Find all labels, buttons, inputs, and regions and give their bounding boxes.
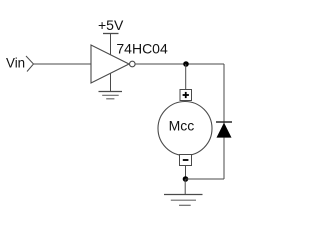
wire junction to ground symbol xyxy=(184,179,186,195)
wire right branch vertical (diode branch) xyxy=(223,64,225,179)
ground (motor) xyxy=(164,195,203,206)
wire Vin to inverter input xyxy=(34,63,92,65)
wire right branch bottom to ground junction xyxy=(186,178,225,180)
op-amp U1 inverter 74HC04 xyxy=(91,45,135,83)
motor terminal - xyxy=(180,155,192,166)
svg-text:+5V: +5V xyxy=(98,17,124,33)
motor terminal + xyxy=(180,90,192,101)
diode D1 (flyback) xyxy=(216,122,232,138)
wire inverter to ground xyxy=(110,74,112,92)
svg-text:Vin: Vin xyxy=(6,56,25,71)
svg-text:74HC04: 74HC04 xyxy=(116,41,168,57)
wire junction to motor + terminal xyxy=(185,64,187,90)
svg-text:Mcc: Mcc xyxy=(169,118,195,134)
motor Mcc xyxy=(158,102,212,156)
wire junction to right branch corner xyxy=(186,63,224,65)
ground (inverter) xyxy=(99,92,123,99)
wire +5V to inverter xyxy=(110,34,112,56)
junction (ground node) xyxy=(183,176,189,182)
+5V power symbol xyxy=(103,33,119,35)
wire motor - terminal to ground junction xyxy=(185,166,187,180)
junction (inverter output node) xyxy=(183,61,189,67)
input port Vin xyxy=(26,56,34,72)
wire inverter output to junction xyxy=(135,63,186,65)
